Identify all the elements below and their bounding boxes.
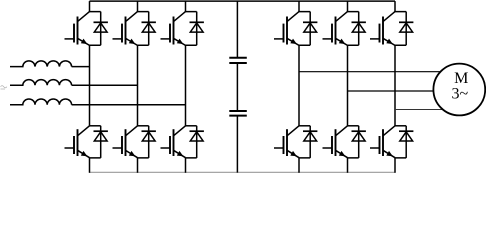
- inductor Lc (grid filter): [10, 99, 72, 105]
- diode D6: [190, 126, 204, 158]
- wire: collector stub and top bracket of V3: [186, 1, 197, 11]
- motor M (3-phase machine): [433, 64, 485, 116]
- wire: emitter bracket and bottom lead of V5: [138, 158, 149, 173]
- IGBT V5: [113, 126, 138, 158]
- wire: emitter bracket and bottom lead of V10: [299, 158, 310, 173]
- inductor Lb (grid filter): [10, 80, 72, 86]
- wire: DC-link capacitor leg: [236, 1, 238, 172]
- svg-text:3~: 3~: [451, 86, 468, 103]
- diode D2: [142, 12, 156, 46]
- diode D5: [142, 126, 156, 158]
- IGBT V3: [161, 12, 186, 46]
- wire: collector stub and top bracket of V7: [299, 1, 310, 11]
- wire: emitter bracket and bottom lead of V12: [395, 158, 406, 173]
- diode D12: [399, 126, 413, 158]
- capacitor C1: [229, 58, 247, 63]
- wire: emitter bracket and bottom lead of V11: [348, 158, 359, 173]
- bottom DC bus rail: [89, 171, 396, 173]
- IGBT V4: [65, 126, 90, 158]
- wire: emitter bracket and phase leg of V2: [138, 45, 149, 126]
- diode D1: [94, 12, 108, 46]
- wire: collector bracket of V10: [299, 125, 310, 127]
- wire: emitter bracket and phase leg of V7: [299, 45, 310, 126]
- wire: emitter bracket and phase leg of V9: [395, 45, 406, 126]
- wire: collector stub and top bracket of V9: [395, 1, 406, 11]
- wire: collector bracket of V6: [186, 125, 197, 127]
- diode D3: [190, 12, 204, 46]
- wire: collector stub and top bracket of V1: [90, 1, 101, 11]
- wire: collector bracket of V11: [348, 125, 359, 127]
- top DC bus rail: [90, 0, 396, 2]
- IGBT V12: [370, 126, 395, 158]
- wire: inverter phase a to motor: [299, 71, 441, 73]
- wire: collector bracket of V5: [138, 125, 149, 127]
- AC grid label (faint): [1, 86, 7, 89]
- diode D9: [399, 12, 413, 46]
- svg-text:M: M: [454, 70, 468, 87]
- wire: phase b to rectifier leg: [72, 84, 138, 86]
- wire: inverter phase b to motor: [348, 90, 434, 92]
- wire: collector stub and top bracket of V2: [138, 1, 149, 11]
- inductor La (grid filter): [10, 61, 72, 67]
- wire: collector bracket of V12: [395, 125, 406, 127]
- IGBT V1: [65, 12, 90, 46]
- diode D7: [303, 12, 317, 46]
- IGBT V8: [323, 12, 348, 46]
- IGBT V11: [323, 126, 348, 158]
- wire: emitter bracket and bottom lead of V6: [186, 158, 197, 173]
- wire: emitter bracket and phase leg of V8: [348, 45, 359, 126]
- diode D10: [303, 126, 317, 158]
- diode D4: [94, 126, 108, 158]
- wire: emitter bracket and bottom lead of V4: [90, 158, 101, 173]
- wire: collector stub and top bracket of V8: [348, 1, 359, 11]
- IGBT V6: [161, 126, 186, 158]
- diode D8: [352, 12, 366, 46]
- IGBT V9: [370, 12, 395, 46]
- wire: collector bracket of V4: [90, 125, 101, 127]
- diode D11: [352, 126, 366, 158]
- capacitor C2: [229, 111, 247, 116]
- wire: phase c to rectifier leg: [72, 104, 186, 106]
- IGBT V2: [113, 12, 138, 46]
- IGBT V7: [274, 12, 299, 46]
- wire: phase a to rectifier leg: [72, 66, 90, 68]
- wire: emitter bracket and phase leg of V1: [90, 45, 101, 126]
- wire: emitter bracket and phase leg of V3: [186, 45, 197, 126]
- IGBT V10: [274, 126, 299, 158]
- wire: inverter phase c to motor: [395, 109, 442, 111]
